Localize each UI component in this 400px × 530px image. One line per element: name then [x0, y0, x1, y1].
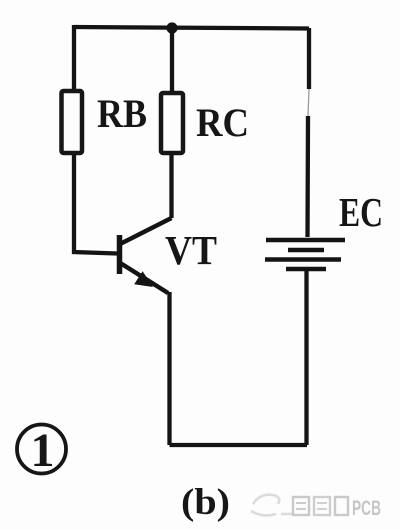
svg-text:RC: RC [196, 100, 249, 145]
wire right vertical upper [308, 28, 310, 237]
figure number circled 1 [17, 424, 66, 477]
svg-text:EC: EC [339, 189, 383, 235]
label EC [339, 189, 383, 235]
transistor VT [120, 218, 172, 293]
caption (b) [181, 482, 230, 523]
wire bottom horizontal [170, 443, 308, 447]
svg-text:VT: VT [165, 227, 217, 273]
resistor RB [62, 91, 83, 153]
label RB [97, 91, 147, 136]
wire RC top vertical [170, 28, 174, 93]
resistor RC [161, 93, 183, 153]
wire left vertical lower [74, 153, 117, 254]
wire top horizontal [74, 27, 309, 29]
svg-text:PCB: PCB [352, 497, 381, 520]
wire emitter vertical [167, 292, 171, 445]
watermark text [293, 497, 381, 520]
wire collector vertical [169, 153, 173, 218]
wire right vertical lower [304, 269, 308, 445]
svg-text:1: 1 [31, 424, 55, 477]
label VT [165, 227, 217, 273]
wire left vertical upper [72, 25, 76, 92]
node junction dot [166, 22, 177, 33]
label RC [196, 100, 249, 145]
battery EC [265, 240, 345, 269]
svg-text:(b): (b) [181, 482, 230, 523]
watermark logo [251, 495, 292, 516]
svg-text:RB: RB [97, 91, 147, 136]
